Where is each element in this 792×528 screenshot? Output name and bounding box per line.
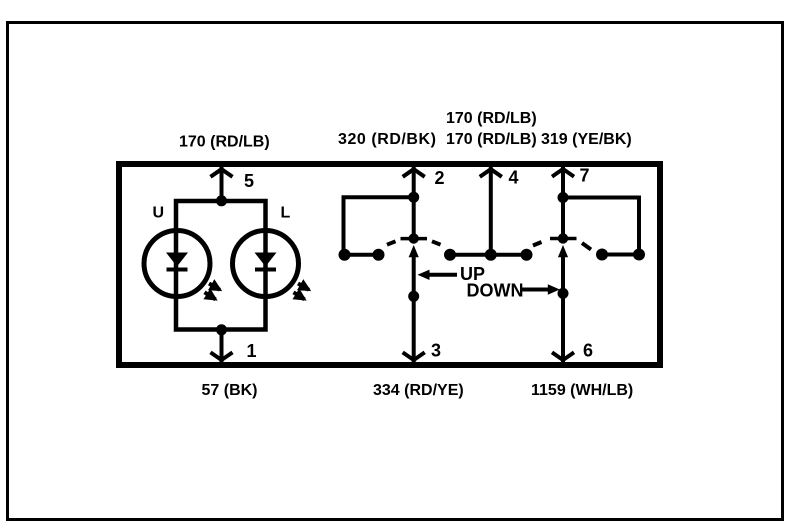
LED L circle bbox=[233, 231, 299, 297]
wiper arrowhead (UP switch) bbox=[409, 245, 419, 257]
contact dot bbox=[521, 249, 533, 261]
svg-text:3: 3 bbox=[431, 341, 441, 361]
LED U circle bbox=[144, 231, 210, 297]
svg-text:170 (RD/LB): 170 (RD/LB) bbox=[446, 110, 537, 127]
wire from pin2 node to UP contact bbox=[344, 197, 414, 252]
pin 4 wire and arrow bbox=[480, 165, 502, 255]
node on pin 2 wire bbox=[408, 192, 419, 203]
svg-text:1: 1 bbox=[247, 341, 257, 361]
contact dot bbox=[339, 249, 351, 261]
LED L diode symbol bbox=[255, 253, 277, 270]
svg-text:DOWN: DOWN bbox=[467, 281, 524, 301]
svg-text:334 (RD/YE): 334 (RD/YE) bbox=[373, 382, 464, 399]
UP label arrow bbox=[418, 270, 458, 280]
svg-text:2: 2 bbox=[435, 168, 445, 188]
LED U emission arrows bbox=[205, 284, 221, 300]
dashed wiper segments (UP switch) bbox=[387, 241, 441, 244]
pin 6 arrow bbox=[552, 352, 574, 360]
pin 7 wire and arrow bbox=[552, 165, 574, 240]
node: loop bottom junction bbox=[216, 324, 227, 335]
UP switch pivot node bbox=[409, 233, 419, 243]
wiper arrowhead (DOWN switch) bbox=[558, 245, 568, 257]
svg-text:320 (RD/BK): 320 (RD/BK) bbox=[338, 131, 437, 148]
contact dot (pin 4) bbox=[485, 249, 497, 261]
svg-text:L: L bbox=[281, 205, 291, 222]
contact dot bbox=[373, 249, 385, 261]
svg-text:U: U bbox=[153, 205, 165, 222]
pin 6 wire bbox=[561, 252, 565, 364]
svg-text:4: 4 bbox=[509, 168, 519, 188]
pin 2 wire and arrow bbox=[403, 165, 425, 240]
svg-text:6: 6 bbox=[583, 341, 593, 361]
node: loop top junction bbox=[216, 195, 227, 206]
svg-text:170 (RD/LB): 170 (RD/LB) bbox=[179, 134, 270, 151]
pivot cross bar bbox=[550, 237, 577, 241]
contact dot bbox=[596, 249, 608, 261]
dashed wiper segments (DOWN switch) bbox=[533, 242, 591, 250]
pivot cross bar bbox=[401, 237, 428, 241]
node on pin 6 wire bbox=[558, 288, 569, 299]
svg-text:57 (BK): 57 (BK) bbox=[202, 382, 258, 399]
LED parallel loop wire bbox=[176, 201, 266, 330]
common contact rail bbox=[450, 253, 527, 257]
LED U diode symbol bbox=[166, 253, 188, 270]
svg-text:319 (YE/BK): 319 (YE/BK) bbox=[541, 131, 632, 148]
switch assembly box bbox=[119, 164, 660, 365]
DOWN label arrow bbox=[521, 284, 560, 294]
LED L emission arrows bbox=[294, 284, 310, 300]
wire from pin7 node to DOWN contact bbox=[563, 198, 639, 253]
svg-text:170 (RD/LB): 170 (RD/LB) bbox=[446, 131, 537, 148]
wire bbox=[602, 253, 639, 257]
pin 3 wire bbox=[412, 252, 416, 364]
node on pin 3 wire bbox=[408, 291, 419, 302]
svg-text:5: 5 bbox=[244, 171, 254, 191]
svg-text:1159 (WH/LB): 1159 (WH/LB) bbox=[531, 382, 633, 399]
svg-text:7: 7 bbox=[580, 166, 590, 186]
DOWN switch pivot node bbox=[558, 233, 568, 243]
pin 5 wire and arrow bbox=[211, 165, 233, 198]
wire bbox=[345, 253, 379, 257]
pin 3 arrow bbox=[403, 352, 425, 360]
contact dot bbox=[633, 249, 645, 261]
contact dot bbox=[444, 249, 456, 261]
node on pin 7 wire bbox=[558, 192, 569, 203]
pin 1 wire and arrow bbox=[211, 330, 233, 364]
